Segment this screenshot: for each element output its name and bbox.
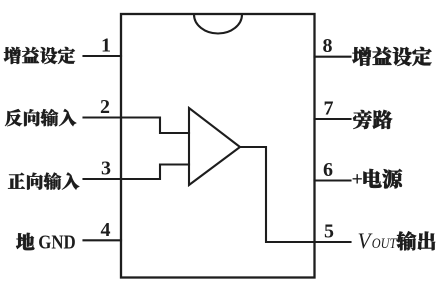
label pin6: power 电源 (363, 169, 402, 188)
op-amp A1 triangle (189, 108, 240, 185)
pin 6 lead (315, 179, 351, 181)
wire pin3 to non-inverting input (121, 165, 189, 180)
svg-text:8: 8 (323, 35, 333, 57)
wire pin2 to inverting input (121, 118, 189, 134)
svg-text:1: 1 (101, 35, 111, 57)
svg-text:OUT: OUT (372, 236, 397, 252)
pin 7 lead (315, 118, 351, 120)
label pin7: bypass 旁路 (353, 110, 392, 129)
svg-text:2: 2 (100, 96, 110, 118)
svg-text:6: 6 (323, 159, 333, 181)
svg-text:+: + (352, 169, 363, 191)
pin 2 lead (84, 116, 122, 118)
notch (pin-1 end indicator) (194, 15, 242, 34)
pin 5 lead (315, 241, 351, 243)
label pin5: output 输出 (396, 231, 435, 250)
svg-text:GND: GND (38, 232, 75, 254)
wire op-amp output to pin 5 (240, 147, 315, 242)
svg-text:3: 3 (101, 158, 111, 180)
svg-text:V: V (358, 228, 373, 253)
IC body U1 (121, 14, 315, 278)
svg-text:4: 4 (101, 219, 111, 241)
pin 1 lead (84, 55, 122, 57)
svg-text:5: 5 (324, 221, 334, 243)
pin 3 lead (84, 178, 122, 180)
pin 8 lead (315, 56, 351, 58)
label pin1: gain set 增益设定 (4, 47, 75, 64)
pin 4 lead (84, 239, 122, 241)
label pin3: non-inverting input 正向输入 (8, 172, 79, 189)
label pin2: inverting input 反向输入 (5, 109, 76, 126)
label pin8: gain set 增益设定 (352, 47, 431, 66)
label pin4: ground 地 (16, 233, 34, 250)
svg-text:7: 7 (324, 98, 334, 120)
